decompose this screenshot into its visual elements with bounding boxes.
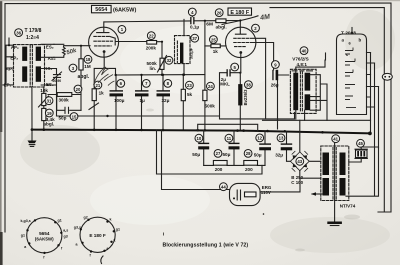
svg-text:37: 37 bbox=[192, 36, 197, 41]
svg-text:32μ: 32μ bbox=[275, 153, 283, 158]
svg-text:24: 24 bbox=[208, 84, 213, 89]
svg-text:k: k bbox=[110, 218, 112, 222]
svg-text:3x2μF: 3x2μF bbox=[189, 47, 194, 59]
svg-text:MKL: MKL bbox=[220, 81, 230, 86]
svg-text:1μ: 1μ bbox=[140, 98, 146, 103]
svg-text:12: 12 bbox=[257, 136, 262, 141]
svg-text:27: 27 bbox=[216, 151, 221, 156]
svg-text:T 179/8: T 179/8 bbox=[25, 28, 42, 34]
svg-text:lin.: lin. bbox=[150, 66, 157, 71]
svg-text:a,s: a,s bbox=[63, 229, 68, 233]
svg-text:5654: 5654 bbox=[95, 7, 107, 13]
svg-text:1:2≡4: 1:2≡4 bbox=[26, 35, 39, 41]
svg-text:50μ: 50μ bbox=[254, 153, 262, 158]
svg-text:6M: 6M bbox=[206, 22, 213, 28]
svg-text:g3,s: g3,s bbox=[74, 226, 81, 230]
svg-text:b: b bbox=[359, 38, 362, 43]
svg-text:26: 26 bbox=[217, 10, 222, 15]
svg-text:Blockierungsstellung 1 (wie V: Blockierungsstellung 1 (wie V 72) bbox=[163, 242, 249, 248]
svg-text:19: 19 bbox=[47, 111, 52, 116]
svg-text:50μ: 50μ bbox=[192, 152, 200, 157]
svg-text:5k: 5k bbox=[187, 92, 193, 97]
svg-text:20: 20 bbox=[76, 87, 81, 92]
svg-text:26μ: 26μ bbox=[271, 83, 279, 88]
svg-text:44: 44 bbox=[221, 185, 226, 190]
svg-text:g1: g1 bbox=[21, 233, 25, 237]
svg-text:AP₁: AP₁ bbox=[6, 67, 14, 72]
svg-text:10: 10 bbox=[197, 136, 202, 141]
svg-text:200: 200 bbox=[245, 167, 253, 172]
svg-text:abgl.: abgl. bbox=[78, 74, 90, 80]
svg-text:50p: 50p bbox=[59, 116, 67, 121]
svg-text:5654: 5654 bbox=[39, 231, 50, 236]
svg-text:ES₂: ES₂ bbox=[46, 45, 54, 50]
svg-text:g1: g1 bbox=[58, 218, 62, 222]
svg-text:E 180 F: E 180 F bbox=[89, 233, 106, 238]
svg-text:k,g3,s: k,g3,s bbox=[21, 219, 31, 223]
svg-text:11: 11 bbox=[227, 136, 232, 141]
svg-text:45: 45 bbox=[358, 141, 363, 146]
svg-text:(6AK5W): (6AK5W) bbox=[113, 7, 136, 13]
svg-text:15: 15 bbox=[72, 114, 77, 119]
svg-text:41: 41 bbox=[333, 137, 338, 142]
svg-text:abgl.: abgl. bbox=[216, 24, 227, 30]
svg-text:1M: 1M bbox=[84, 64, 91, 69]
svg-text:abgl.: abgl. bbox=[44, 122, 55, 127]
svg-text:22: 22 bbox=[149, 33, 154, 38]
svg-text:1k: 1k bbox=[213, 49, 219, 54]
svg-text:E 180 F: E 180 F bbox=[230, 10, 250, 16]
svg-text:(6AK5W): (6AK5W) bbox=[35, 236, 54, 241]
svg-text:C 100: C 100 bbox=[291, 180, 303, 185]
svg-text:100μ: 100μ bbox=[114, 98, 125, 103]
svg-text:200k: 200k bbox=[146, 46, 157, 51]
svg-text:500k: 500k bbox=[205, 104, 216, 109]
svg-text:31: 31 bbox=[47, 99, 52, 104]
svg-text:13: 13 bbox=[279, 136, 284, 141]
svg-text:200: 200 bbox=[215, 167, 223, 172]
svg-text:g3: g3 bbox=[64, 235, 68, 239]
svg-text:18: 18 bbox=[86, 57, 91, 62]
svg-text:0,1μ: 0,1μ bbox=[190, 25, 199, 30]
svg-text:g1: g1 bbox=[116, 228, 120, 232]
svg-text:43: 43 bbox=[297, 159, 302, 164]
svg-text:k: k bbox=[114, 239, 116, 243]
svg-text:21: 21 bbox=[96, 83, 101, 88]
svg-text:28: 28 bbox=[246, 151, 251, 156]
svg-text:1k: 1k bbox=[99, 91, 105, 96]
svg-text:40: 40 bbox=[302, 48, 307, 53]
svg-text:20-90: 20-90 bbox=[53, 79, 62, 83]
svg-text:32: 32 bbox=[167, 58, 172, 63]
svg-text:36: 36 bbox=[16, 30, 21, 35]
svg-text:38: 38 bbox=[246, 82, 251, 87]
svg-text:25: 25 bbox=[211, 37, 216, 42]
svg-text:4,8:1: 4,8:1 bbox=[297, 62, 308, 67]
svg-text:23: 23 bbox=[187, 83, 192, 88]
svg-text:50μ: 50μ bbox=[223, 152, 231, 157]
svg-text:10k: 10k bbox=[40, 88, 48, 93]
svg-text:300k: 300k bbox=[59, 98, 70, 103]
svg-text:32μ: 32μ bbox=[162, 98, 170, 103]
svg-text:Bv236/3: Bv236/3 bbox=[243, 89, 248, 106]
svg-text:V76/2/S: V76/2/S bbox=[292, 57, 308, 62]
svg-text:NT/V74: NT/V74 bbox=[340, 203, 356, 208]
svg-text:g2: g2 bbox=[84, 215, 88, 219]
